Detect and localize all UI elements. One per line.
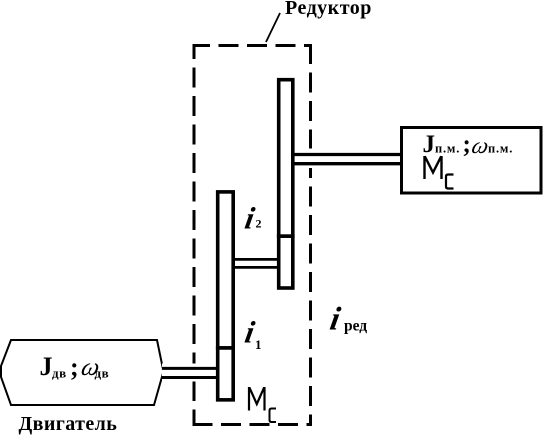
pinion Z3 on intermediate shaft (279, 236, 293, 288)
label Mc inside load box (425, 156, 454, 189)
gearbox dashed boundary (193, 44, 313, 426)
leader line to gearbox (266, 13, 280, 42)
svg-text:ред: ред (344, 318, 367, 335)
output shaft (double line) (293, 149, 402, 169)
intermediate shaft (double line) (232, 259, 280, 267)
motor shaft (double line) (162, 364, 217, 382)
label J_дв ; ω_дв (40, 352, 110, 382)
motor body (hexagon) (1, 340, 164, 405)
load box (402, 128, 542, 194)
svg-text:J: J (423, 131, 436, 158)
svg-text:дв: дв (95, 366, 110, 381)
wheel Z2 on intermediate shaft (218, 192, 234, 348)
svg-text:п.м.: п.м. (488, 142, 513, 156)
label i_ред (327, 301, 367, 338)
label i1 (242, 315, 261, 352)
pinion Z1 on motor shaft (218, 348, 234, 400)
svg-text:п.м.: п.м. (435, 142, 460, 156)
svg-text:J: J (40, 352, 53, 381)
label Mc inside gearbox (249, 387, 276, 422)
svg-text:;: ; (70, 353, 79, 382)
svg-text:Двигатель: Двигатель (19, 413, 118, 435)
svg-text:1: 1 (255, 337, 262, 352)
svg-text:дв: дв (52, 366, 67, 381)
svg-text:2: 2 (256, 216, 262, 230)
wheel Z4 on output shaft (279, 80, 293, 236)
label J_пм ; ω_пм (423, 131, 514, 159)
label i2 (242, 201, 261, 236)
svg-text:Редуктор: Редуктор (285, 0, 372, 19)
